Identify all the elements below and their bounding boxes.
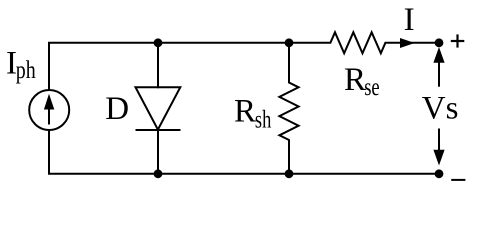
svg-text:R: R	[344, 62, 366, 98]
svg-text:I: I	[404, 2, 415, 38]
svg-text:D: D	[105, 91, 129, 127]
svg-text:se: se	[364, 74, 380, 101]
svg-text:ph: ph	[16, 57, 36, 84]
svg-text:R: R	[234, 94, 256, 130]
svg-text:Vs: Vs	[422, 91, 459, 127]
svg-text:sh: sh	[255, 106, 272, 133]
